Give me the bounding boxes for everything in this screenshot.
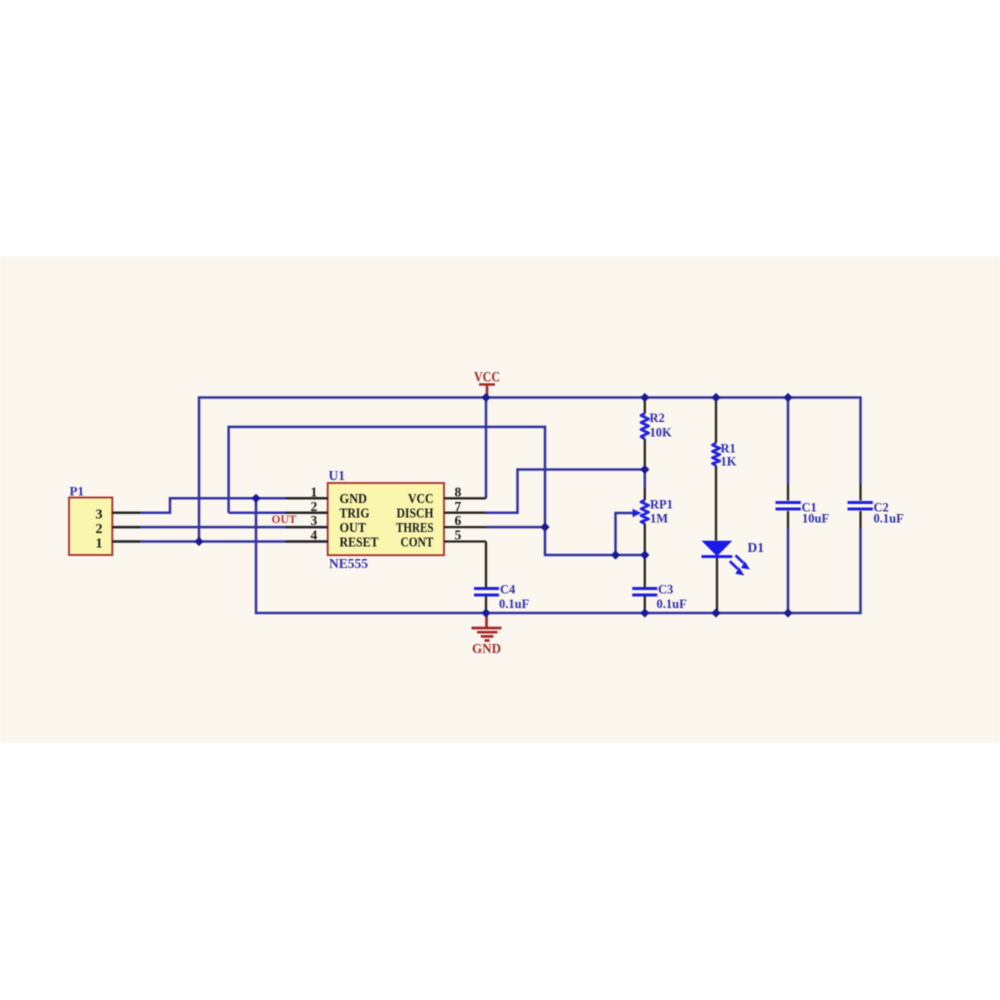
junction dot C3 bottom (640, 608, 649, 617)
junction dot D1 bottom (711, 608, 720, 617)
svg-text:NE555: NE555 (329, 556, 368, 571)
svg-text:1K: 1K (721, 455, 737, 469)
svg-text:GND: GND (340, 492, 368, 507)
svg-text:CONT: CONT (401, 535, 435, 550)
svg-text:VCC: VCC (474, 370, 500, 386)
svg-text:VCC: VCC (408, 492, 434, 507)
U1 pin stubs left (286, 498, 329, 541)
svg-text:RESET: RESET (340, 535, 380, 550)
svg-text:6: 6 (455, 513, 462, 528)
wire: P1 pin3 to U1 GND (112, 498, 328, 512)
wire: OUT net P1 pin2 to U1 pin3 (112, 526, 328, 529)
svg-text:7: 7 (455, 499, 462, 514)
svg-text:1: 1 (310, 484, 317, 499)
svg-text:U1: U1 (329, 468, 346, 483)
svg-text:C4: C4 (500, 583, 516, 597)
svg-text:D1: D1 (748, 540, 765, 555)
capacitor C4 (474, 542, 530, 614)
svg-text:C3: C3 (658, 583, 673, 597)
svg-text:1: 1 (96, 536, 103, 551)
svg-text:5: 5 (455, 528, 462, 543)
junction dot RESET/rail (194, 537, 203, 546)
resistor R2 (641, 398, 672, 470)
junction dot R2 top (640, 393, 649, 402)
op-amp U1 NE555 (286, 468, 487, 571)
svg-text:OUT: OUT (272, 514, 297, 526)
svg-text:3: 3 (310, 513, 317, 528)
junction dot R1 top (711, 393, 720, 402)
junction dot GND net (251, 494, 260, 503)
svg-text:0.1uF: 0.1uF (657, 597, 688, 611)
wire: DISCH to R2/RP1 junction (486, 470, 645, 513)
svg-text:RP1: RP1 (650, 498, 673, 512)
wire: TRIG-THRES net rail (229, 427, 645, 555)
junction dot C4 bottom (481, 608, 490, 617)
svg-text:R2: R2 (650, 411, 665, 425)
wire: VCC top rail (199, 398, 861, 542)
svg-text:10uF: 10uF (802, 512, 829, 526)
junction dot R2/RP1/DISCH (640, 465, 649, 474)
svg-text:10K: 10K (650, 426, 673, 440)
potentiometer RP1 (633, 470, 673, 556)
svg-text:TRIG: TRIG (340, 507, 370, 522)
wire: U1 pin8 to VCC rail (485, 398, 488, 499)
svg-text:GND: GND (472, 642, 501, 657)
svg-text:4: 4 (310, 528, 317, 543)
svg-text:1M: 1M (650, 512, 668, 526)
photo background band (0, 256, 1000, 743)
svg-text:DISCH: DISCH (397, 507, 434, 522)
LED D1 (702, 540, 765, 613)
junction dot C1 top (783, 393, 792, 402)
capacitor C1 (776, 398, 830, 614)
svg-text:8: 8 (455, 484, 462, 499)
wire: RESET net P1 pin1 to U1 pin4 (112, 540, 328, 543)
ground symbol (472, 614, 502, 657)
svg-text:OUT: OUT (340, 521, 367, 536)
svg-text:THRES: THRES (396, 521, 434, 536)
svg-text:R1: R1 (721, 442, 736, 456)
U1 pin stubs right (444, 498, 486, 541)
svg-text:2: 2 (96, 522, 103, 537)
VCC power symbol (474, 370, 500, 398)
LED emission arrows (736, 555, 744, 563)
svg-text:P1: P1 (70, 484, 84, 499)
capacitor C3 (632, 555, 687, 613)
svg-text:0.1uF: 0.1uF (499, 597, 530, 611)
wire: RP1 wiper (616, 513, 635, 555)
resistor R1 (712, 398, 736, 541)
junction dot wiper (611, 550, 620, 559)
junction dot VCC/rail (481, 393, 490, 402)
wire: TRIG stub (229, 511, 328, 514)
capacitor C2 (848, 484, 905, 528)
junction dot C1 bottom (783, 608, 792, 617)
svg-text:0.1uF: 0.1uF (874, 512, 905, 526)
svg-text:3: 3 (96, 508, 103, 523)
svg-text:2: 2 (310, 499, 317, 514)
wire: ground bottom rail (256, 498, 861, 613)
wire: THRES to rail junction (486, 526, 545, 529)
junction dot THRES (540, 523, 549, 532)
junction dot RP1 bottom (640, 550, 649, 559)
connector P1 (69, 484, 140, 556)
